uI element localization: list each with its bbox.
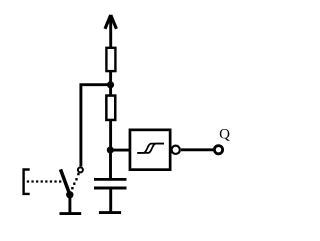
switch S1 lever (61, 169, 70, 194)
wire (109, 189, 112, 211)
switch S1 travel dots (71, 173, 79, 190)
ground (99, 211, 121, 214)
schmitt trigger U1 (130, 130, 170, 170)
actuator bracket (24, 170, 30, 194)
switch S1 pivot contact (66, 191, 73, 198)
capacitor C1 (94, 179, 127, 188)
wire (181, 148, 213, 151)
wire (109, 71, 112, 85)
resistor R2 (106, 96, 115, 120)
switch S1 fixed contact (78, 167, 83, 172)
svg-text:Q: Q (219, 127, 230, 143)
wire (110, 149, 130, 152)
node B (107, 146, 114, 153)
wire (109, 120, 112, 151)
terminal Q (214, 146, 222, 154)
power supply arrow VCC (105, 15, 116, 48)
ground (60, 212, 82, 215)
wire (68, 195, 71, 213)
node A (107, 81, 114, 88)
resistor R1 (106, 48, 115, 71)
inversion bubble (172, 146, 180, 154)
wire (109, 84, 112, 96)
wire (109, 150, 112, 179)
wire (81, 85, 111, 167)
actuator link dots (27, 180, 62, 182)
